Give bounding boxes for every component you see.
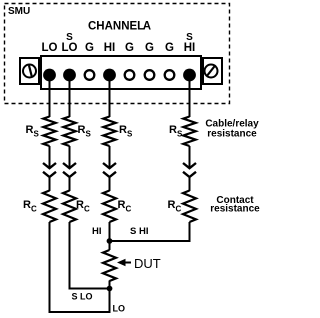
svg-text:RS: RS: [169, 124, 183, 139]
resistor RS3 (cable/relay resistance): [103, 117, 115, 147]
connector 2 plug arrow: [69, 146, 71, 168]
svg-text:G: G: [85, 42, 94, 54]
node HI junction: [107, 238, 113, 244]
wire LO terminal down: [49, 79, 51, 117]
svg-text:RC: RC: [168, 199, 182, 214]
connector 1 plug arrow: [49, 146, 51, 168]
svg-text:G: G: [145, 42, 154, 54]
svg-text:HI: HI: [184, 42, 196, 54]
svg-text:CHANNELA: CHANNELA: [88, 21, 151, 33]
wire S LO terminal down: [69, 79, 71, 117]
svg-text:G: G: [165, 42, 174, 54]
terminal G4 (open): [165, 70, 175, 80]
terminal S HI (filled): [183, 69, 196, 82]
wire S LO horizontal: [69, 288, 111, 290]
svg-text:LO: LO: [62, 42, 78, 54]
terminal S LO (filled): [63, 69, 76, 82]
connector 2 socket: [63, 172, 76, 177]
resistor RC3 (contact resistance): [103, 191, 116, 223]
connector 1 socket: [43, 172, 56, 177]
wire S LO node down to LO rail: [109, 289, 111, 314]
svg-text:SMU: SMU: [8, 6, 30, 17]
svg-text:resistance: resistance: [207, 129, 257, 140]
resistor RS2 (cable/relay resistance): [63, 117, 75, 147]
resistor RC1 (contact resistance): [43, 191, 56, 223]
wire LO column down to bottom rail: [49, 222, 51, 313]
wire S HI horizontal to HI node: [109, 240, 191, 242]
svg-text:S HI: S HI: [130, 226, 148, 237]
svg-text:LO: LO: [113, 304, 126, 314]
left screw box: [20, 58, 39, 84]
wire S LO column down: [69, 222, 71, 290]
connector 4 plug arrow: [189, 146, 191, 168]
svg-text:RC: RC: [118, 199, 132, 214]
DUT pointer arrow: [122, 262, 131, 264]
svg-text:DUT: DUT: [134, 256, 161, 271]
resistor RS4 (cable/relay resistance): [183, 117, 195, 147]
wire HI column down to node: [109, 222, 111, 242]
terminal LO (filled): [43, 69, 56, 82]
terminal block body: [41, 56, 201, 89]
resistor RS1 (cable/relay resistance): [43, 117, 55, 147]
resistor RC2 (contact resistance): [63, 191, 76, 223]
left screw head: [23, 65, 36, 78]
resistor DUT: [103, 250, 116, 281]
svg-text:S LO: S LO: [72, 292, 93, 302]
right screw box: [203, 58, 222, 84]
svg-text:RS: RS: [119, 124, 133, 139]
terminal G3 (open): [145, 70, 155, 80]
connector 3 plug arrow: [109, 146, 111, 168]
connector 4 socket: [183, 172, 196, 177]
terminal HI (filled): [103, 69, 116, 82]
svg-text:LO: LO: [42, 42, 58, 54]
svg-text:RC: RC: [23, 199, 37, 214]
terminal G1 (open): [85, 70, 95, 80]
wire LO bottom rail: [49, 311, 111, 313]
resistor RC4 (contact resistance): [183, 191, 196, 223]
svg-text:RC: RC: [76, 199, 90, 214]
wire HI terminal down: [109, 79, 111, 117]
svg-text:G: G: [125, 42, 134, 54]
SMU enclosure dashed box: [5, 4, 230, 104]
wire HI node to DUT: [109, 241, 111, 250]
right screw head: [205, 65, 218, 78]
terminal G2 (open): [125, 70, 135, 80]
svg-text:RS: RS: [26, 124, 40, 139]
node S LO junction: [107, 286, 113, 292]
svg-text:HI: HI: [104, 42, 116, 54]
wire S HI column down: [189, 222, 191, 242]
svg-text:HI: HI: [92, 226, 102, 237]
wire S HI terminal down: [189, 79, 191, 117]
connector 3 socket: [103, 172, 116, 177]
svg-text:RS: RS: [78, 124, 92, 139]
svg-text:resistance: resistance: [210, 204, 260, 215]
